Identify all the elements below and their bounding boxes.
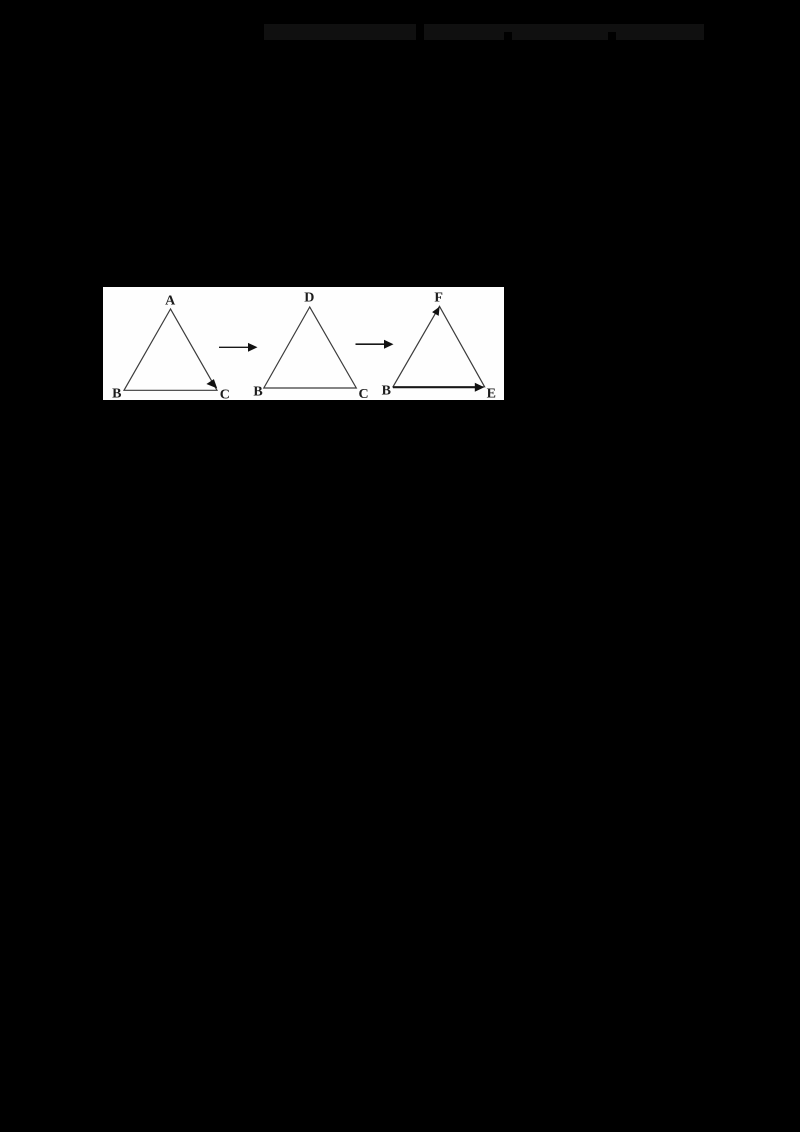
notch gap 2 in bar 2 <box>608 32 616 40</box>
arrow B to F head near apex F <box>432 307 440 316</box>
arrow A to C on right edge of triangle ABC <box>206 379 217 388</box>
svg-text:B: B <box>253 384 262 399</box>
triangle DBC edges <box>264 307 357 388</box>
svg-text:B: B <box>382 383 391 398</box>
arrow between triangle 2 and 3 <box>356 340 394 349</box>
svg-text:C: C <box>358 387 368 400</box>
white figure panel <box>103 287 504 400</box>
top dark title bar 2 <box>424 24 704 40</box>
svg-text:C: C <box>220 387 230 400</box>
triangle FBE edges <box>393 306 485 387</box>
triangle ABC edges <box>124 309 217 390</box>
arrow between triangle 1 and 2 <box>219 343 258 352</box>
svg-text:A: A <box>165 293 176 308</box>
svg-text:B: B <box>112 386 121 400</box>
svg-text:F: F <box>434 290 443 305</box>
svg-text:D: D <box>304 291 314 306</box>
svg-text:E: E <box>487 386 496 400</box>
arrow B to E along bottom edge of triangle FBE <box>393 383 484 392</box>
top dark title bar 1 <box>264 24 416 40</box>
notch gap 1 in bar 2 <box>504 32 512 40</box>
